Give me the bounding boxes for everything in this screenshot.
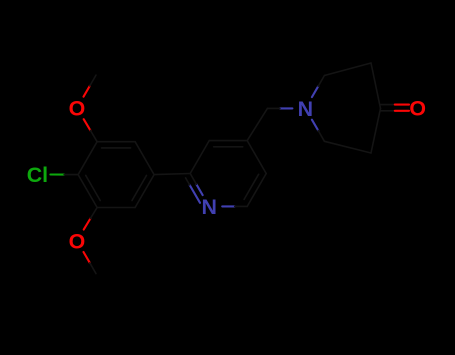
O_bot methyl black half: [90, 263, 96, 274]
C=O line red half: [395, 104, 409, 106]
N1-C6 black half: [235, 205, 248, 207]
N1-C2 black half: [190, 174, 196, 185]
N1-C6 colored half: [222, 205, 235, 207]
O_top to ring black half: [90, 130, 97, 141]
phenyl double Ctl-Ctr inner: [102, 147, 131, 149]
phenyl double Cbl-VCl inner: [86, 175, 101, 200]
svg-text:N: N: [298, 97, 313, 121]
phenyl edge Ctl-Ctr: [97, 141, 135, 143]
N1-C2 colored half: [196, 184, 202, 195]
Npip-CH2 colored half: [280, 107, 293, 109]
O_bot to ring colored half: [84, 219, 91, 230]
O_top to ring colored half: [84, 119, 91, 130]
pip C4k-B2: [371, 108, 381, 153]
pyridine C4-C5: [247, 141, 266, 174]
pyridine C2-C3: [190, 141, 209, 174]
C=O line red half: [395, 110, 409, 112]
phenyl edge VCl-Ctl: [78, 142, 97, 175]
Npip-B1 black half: [318, 131, 324, 142]
phenyl edge VR-Cbr: [135, 175, 154, 208]
svg-text:O: O: [69, 97, 86, 121]
pip T2-C4k: [371, 63, 381, 108]
phenyl edge Cbl-VCl: [78, 175, 97, 208]
svg-text:N: N: [201, 195, 216, 219]
N1=C2 second line blue part: [190, 185, 200, 203]
pyridine C3=C4 inner: [214, 146, 243, 148]
Cl bond black half: [64, 174, 78, 176]
pyridine C5-C6: [247, 174, 266, 207]
svg-text:Cl: Cl: [27, 163, 48, 187]
phenyl edge Ctr-VR: [135, 142, 154, 175]
C4-CH2: [247, 108, 267, 140]
Npip-CH2 black half: [267, 107, 280, 109]
pip T1-T2: [324, 63, 371, 76]
svg-text:O: O: [69, 229, 86, 253]
svg-text:O: O: [409, 97, 426, 121]
C=O line black half: [381, 104, 395, 106]
Npip-T1 colored half: [312, 86, 318, 97]
Npip-T1 black half: [318, 76, 324, 87]
pyridine C5=C6 inner: [244, 174, 259, 199]
pip B2-B1: [324, 141, 371, 153]
O_top methyl colored half: [84, 86, 90, 97]
phenyl edge Cbr-Cbl: [97, 207, 135, 209]
O_top methyl black half: [90, 75, 96, 86]
Npip-B1 colored half: [312, 120, 318, 131]
O_bot methyl colored half: [84, 252, 90, 263]
phenyl double VR-Cbr inner: [132, 175, 147, 200]
pyridine C3-C4: [209, 140, 247, 142]
Cl bond colored half: [50, 173, 64, 175]
O_bot to ring black half: [90, 208, 97, 219]
C=O line black half: [381, 110, 395, 112]
phenyl-pyridine bond: [154, 174, 190, 175]
N1=C2 second line black part: [186, 178, 190, 185]
